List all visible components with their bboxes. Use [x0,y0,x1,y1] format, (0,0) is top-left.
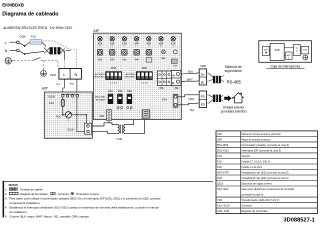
wire BLK X6A to X2M A+ [181,72,198,75]
svg-text:Regletas de terminales: Regletas de terminales [241,209,268,213]
svg-text:Establezca el interruptor desl: Establezca el interruptor deslizante (SS… [9,205,159,209]
svg-text:5.: 5. [5,214,8,218]
wire ORA X7A to X2M F1 [178,95,198,97]
svg-text:SS2: SS2 [118,90,123,93]
connector X8A [171,59,177,63]
LED HAP [162,50,166,54]
svg-text:1 2: 1 2 [135,46,137,48]
svg-text:1 2: 1 2 [123,46,125,48]
svg-text:T1R: T1R [116,137,123,141]
svg-text:X4A: X4A [134,58,139,61]
svg-text:SS1~SS3: SS1~SS3 [217,187,229,191]
svg-text:SS3: SS3 [127,90,132,93]
fuse F1U on A2P [62,97,64,99]
svg-text:F1S: F1S [217,154,222,158]
wire N to X11A [77,97,85,131]
svg-text:X6A: X6A [174,87,179,90]
svg-text:1: 1 [117,109,118,111]
svg-text:: Protección a tierra: : Protección a tierra [75,192,100,196]
earth dashed wire continue [41,60,58,68]
svg-text:1 2: 1 2 [111,46,113,48]
wire fuse to F1S [62,106,64,114]
wire filter to X1M-L [63,50,65,59]
wire L to fuse [26,42,30,46]
svg-text:1.: 1. [5,187,8,191]
svg-text:Caja de interruptores: Caja de interruptores [271,65,301,69]
svg-text:H2P: H2P [173,65,178,67]
svg-text:Interruptor DIP (consulte la n: Interruptor DIP (consulte la nota 3) [241,148,281,152]
svg-text:YEL: YEL [189,108,195,112]
svg-text:N: N [5,49,8,53]
svg-text:A3P: A3P [93,29,99,33]
svg-text:Conector: Conector [241,204,252,208]
ferrite filter core L1R [50,47,61,54]
svg-text:: Regleta de terminales,: : Regleta de terminales, [19,192,49,196]
wire X11A to T1R primary top [92,123,115,126]
svg-text:Disyuntor de fugas a tierra: Disyuntor de fugas a tierra [241,182,272,186]
svg-text:X1M: X1M [50,73,57,77]
svg-text:supervisión: supervisión [225,69,242,73]
svg-text:(consulte la nota 4): (consulte la nota 4) [241,193,263,197]
svg-text:X1A~X11A: X1A~X11A [217,204,230,208]
svg-text:DESCONEC: DESCONEC [94,77,105,79]
pcb A3P [94,33,182,119]
wire crossing out of filter [60,48,64,53]
relay K6R [159,37,163,41]
svg-text:1 2: 1 2 [160,46,162,48]
arrow to exterior unit [224,95,231,101]
svg-text:Placa de circuito impreso (con: Placa de circuito impreso (control) [241,132,280,136]
svg-text:N: N [74,72,77,77]
svg-text:A1P: A1P [217,132,222,136]
ground main supply [5,58,11,64]
svg-text:X1A: X1A [98,58,103,61]
svg-text:F3U: F3U [217,165,222,169]
connector X4A [142,110,150,118]
svg-text:4.: 4. [5,205,8,209]
svg-text:X2A: X2A [110,58,115,61]
ferrite core F1F2 [213,95,221,102]
component box right in switch box [294,45,301,56]
terminal block X1M [59,69,82,80]
wire X1M-L down to A2P [63,79,65,94]
relay K5R [147,37,151,41]
svg-text:X1M: X1M [303,50,308,52]
relay contact 4 [134,50,139,55]
svg-text:F2: F2 [201,103,205,107]
wire filter to X1M-N [66,49,71,51]
terminal block X2M A+/B- [199,69,206,85]
wire X11A to T1R primary bottom [92,132,115,134]
svg-text:T1R: T1R [217,198,222,202]
svg-text:Placa de circuito impreso: Placa de circuito impreso [241,137,271,141]
svg-text:Fusible en la obra: Fusible en la obra [241,165,262,169]
svg-text:F1U: F1U [49,101,54,105]
svg-text:X5A: X5A [99,115,104,118]
svg-text:X1M, X2M: X1M, X2M [217,209,229,213]
svg-text:NOTAS: NOTAS [9,183,18,187]
svg-text:de instalación.: de instalación. [9,210,27,214]
relay K3R [122,37,126,41]
connector X7A [173,94,178,107]
svg-text:1 2 3 4: 1 2 3 4 [110,82,117,84]
svg-text:SS1: SS1 [108,90,113,93]
notes block NOTAS [3,181,5,218]
relay K4R [134,37,138,41]
svg-text:DS1: DS1 [111,66,117,70]
svg-text:: Conector,: : Conector, [56,192,70,196]
svg-text:B-: B- [201,80,204,84]
wire X2M F to ferrite [208,95,213,98]
svg-text:1: 1 [126,109,127,111]
svg-text:Para saber cómo utilizar el co: Para saber cómo utilizar el conmutador p… [9,196,161,200]
svg-text:▮: ▮ [288,56,289,59]
wire F1S down dashed [67,118,69,122]
ferrite core RS485 [213,76,221,83]
earth dashed branch to X1M ground [43,60,45,69]
svg-text:el manual de instalación.: el manual de instalación. [9,201,40,205]
transformer T1R [115,125,118,134]
component A2P in switch box [286,52,292,60]
svg-text:ACTIVADO: ACTIVADO [96,98,106,101]
svg-text:Interruptor deslizante (resist: Interruptor deslizante (resistencia de t… [241,187,294,191]
svg-text:BLU: BLU [56,84,61,86]
wire T1R secondary to X4A [128,118,145,133]
terminal block X2M F1/F2 [199,91,206,108]
svg-text:: Tendido de cables: : Tendido de cables [19,187,44,191]
svg-text:BLK: BLK [188,70,193,74]
misc component under relay 5 [146,58,152,63]
svg-text:F1U: F1U [217,159,222,163]
svg-text:ACTIVADO: ACTIVADO [95,73,105,76]
svg-text:Q1: Q1 [296,47,299,49]
svg-text:0: 0 [121,109,122,111]
svg-text:F1S: F1S [56,114,61,118]
svg-text:A2P: A2P [42,86,48,90]
wire X2M to RS485 ferrite [208,73,213,77]
connector X5A [107,110,112,121]
svg-text:Fusible (T, 3,15 A, 250 V): Fusible (T, 3,15 A, 250 V) [241,159,270,163]
legend table [216,131,317,214]
blue dashed field wiring to X1M-L [63,60,65,68]
house icon exterior unit [232,97,233,98]
wire T1R secondary to A3P bottom [128,119,134,124]
svg-text:ACTIVADO: ACTIVADO [126,73,136,76]
wire F1S to X11A [72,115,87,125]
wire crossing into filter [44,48,50,54]
svg-text:F1U: F1U [31,34,36,38]
svg-text:X10A: X10A [48,95,55,99]
wire fuse to filter [42,42,46,47]
svg-text:Transformador (220-240 V /22 V: Transformador (220-240 V /22 V) [241,198,279,202]
wire WHT X6A to X2M B- [181,80,198,82]
ground in switch box [303,55,308,60]
svg-text:X3A: X3A [122,58,127,61]
svg-text:X3A: X3A [159,87,164,90]
svg-text:ALIMENTACIÓN ELÉCTRICA: ALIMENTACIÓN ELÉCTRICA [3,25,48,30]
svg-text:Visualización de LED (consulte: Visualización de LED (consulte la nota 3… [241,176,288,180]
svg-text:DS1~DS2: DS1~DS2 [217,148,229,152]
svg-text:0: 0 [130,109,131,111]
earth dashed wire [13,59,32,61]
wire X1M-N down to A2P [76,79,78,94]
svg-text:1 2: 1 2 [99,46,101,48]
pcb A2P [44,92,92,138]
svg-text:Varistor: Varistor [241,154,250,158]
breaker Q1DI pole L [19,43,24,46]
terminal hooks X2M [197,71,199,74]
relay contact 5 [146,50,151,55]
svg-text:Q1DI: Q1DI [19,35,26,39]
relay K2R [110,37,114,41]
svg-text:Colores: BLK: negro; WHT: blan: Colores: BLK: negro; WHT: blanco; YEL: a… [9,214,89,218]
terminal X1M in switch box [301,46,309,54]
svg-text:▮▮: ▮▮ [265,51,267,54]
relay K7R [171,37,175,41]
svg-text:Conmutador pulsador (consulte: Conmutador pulsador (consulte la nota 3) [241,143,289,147]
svg-text:X2M: X2M [200,64,207,68]
svg-text:A1P: A1P [274,48,279,52]
breaker Q1DI pole N [19,51,24,54]
surge arrester F1S [64,114,66,116]
svg-text:B-: B- [172,82,175,85]
svg-text:3.: 3. [5,196,8,200]
blue dashed field wiring from fuse [42,41,76,68]
svg-text:X11A: X11A [67,127,74,131]
svg-text:Visualización de LED (consulte: Visualización de LED (consulte la nota 3… [241,170,288,174]
connector X6A A+/B- [171,70,181,85]
svg-text:H1P~H7P: H1P~H7P [217,170,229,174]
relay contact 3 [122,50,127,55]
connector X11A [84,123,91,134]
svg-text:RS-485: RS-485 [227,79,242,84]
svg-text:ORA: ORA [188,97,194,101]
relay K1R [98,37,102,41]
svg-text:BS1~BS5: BS1~BS5 [217,143,229,147]
component box in switch box [263,46,270,55]
svg-text:X7A: X7A [162,97,167,101]
relay contact 1 [97,50,102,55]
indicator dots under SS2 SS3 [117,107,119,109]
svg-text:HAP: HAP [161,57,166,60]
svg-text:F1: F1 [201,94,205,98]
svg-text:Q1DI: Q1DI [217,182,223,186]
ground X1M [41,71,47,77]
svg-text:A+: A+ [201,72,205,76]
svg-text:2.: 2. [5,192,8,196]
LED H2P [173,50,177,54]
terminal strip X3A [157,71,171,86]
wire N to filter [26,51,44,53]
svg-text:EKMBDXB: EKMBDXB [2,2,24,7]
wire X5A to T1R [109,121,112,123]
svg-text:HAP: HAP [217,176,223,180]
wires in switch box [268,50,271,52]
svg-text:DS2: DS2 [142,66,148,70]
svg-text:WHT: WHT [187,77,193,81]
svg-text:1 2 3 4: 1 2 3 4 [141,82,148,84]
svg-text:BRN: BRN [70,84,75,86]
svg-text:1N~50Hz 230V: 1N~50Hz 230V [50,26,73,30]
svg-text:1 2: 1 2 [172,46,174,48]
pcb A1P in switch box [270,44,284,61]
wire YEL X7A to X2M F2 [178,103,198,104]
svg-text:A3P: A3P [217,137,222,141]
earth switch blade [33,58,40,61]
svg-text:3D088527-1: 3D088527-1 [283,218,314,224]
svg-text:Diagrama de cableado: Diagrama de cableado [2,11,59,17]
svg-text:L: L [5,41,7,45]
svg-text:1 2: 1 2 [148,46,150,48]
svg-text:(a unidad exterior): (a unidad exterior) [221,110,247,114]
connector X10A [62,95,65,98]
switch box enclosure [259,41,312,63]
relay contact 2 [110,50,115,55]
svg-text:DESCONEC: DESCONEC [125,77,136,79]
